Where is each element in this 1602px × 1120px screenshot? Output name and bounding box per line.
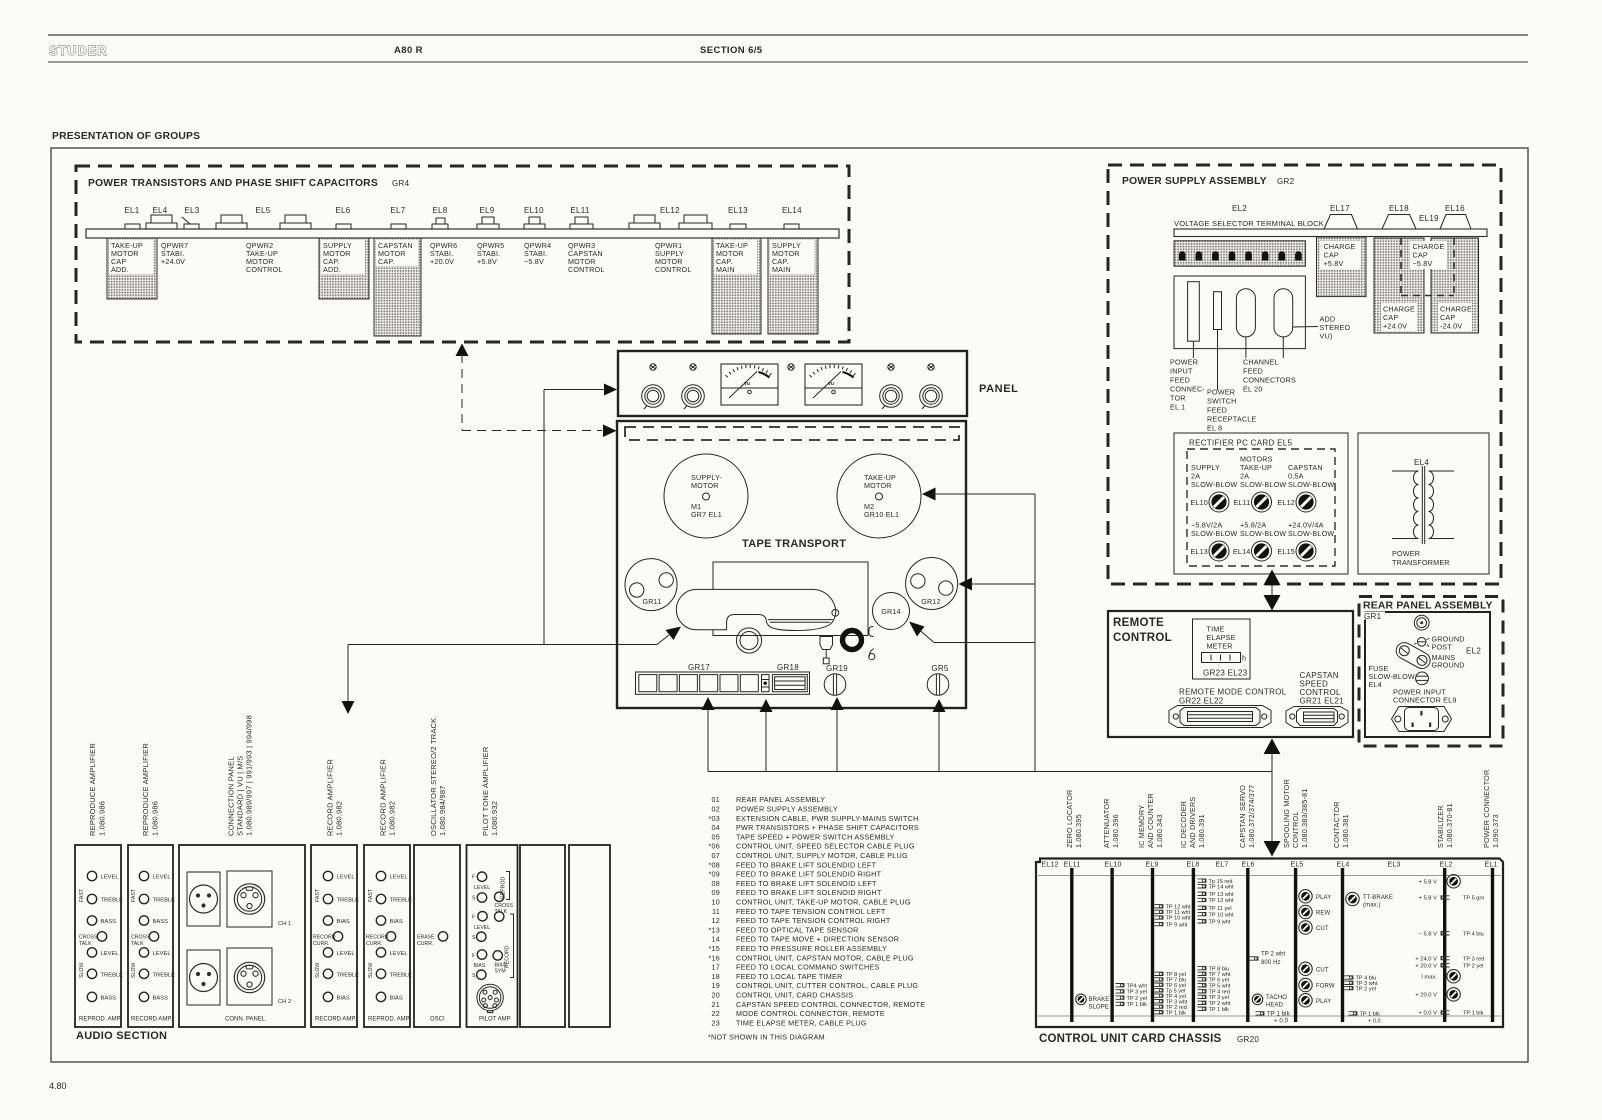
svg-text:TAPE TRANSPORT: TAPE TRANSPORT bbox=[742, 538, 846, 550]
svg-text:GR22 EL22: GR22 EL22 bbox=[1179, 697, 1224, 706]
rear panel dashed enclosure bbox=[1359, 597, 1503, 747]
svg-text:*03: *03 bbox=[708, 814, 720, 823]
svg-text:FORW: FORW bbox=[1316, 984, 1335, 990]
wire: horizontal to audio bbox=[348, 644, 657, 646]
capacitor EL7 bbox=[391, 224, 406, 229]
svg-text:01: 01 bbox=[712, 795, 721, 804]
svg-text:PWR TRANSISTORS + PHASE SHIFT: PWR TRANSISTORS + PHASE SHIFT CAPACITORS bbox=[736, 823, 919, 832]
EL2 stabilizer outputs bbox=[1415, 880, 1437, 1017]
svg-text:REAR PANEL ASSEMBLY: REAR PANEL ASSEMBLY bbox=[736, 795, 825, 804]
svg-text:*08: *08 bbox=[708, 860, 720, 869]
add stereo vu note bbox=[1293, 326, 1318, 329]
GR2 dashed enclosure bbox=[1108, 165, 1501, 584]
power switch feed receptacle EL8 bbox=[1214, 292, 1222, 330]
svg-text:CONTROL UNIT, SUPPLY MOTOR, CA: CONTROL UNIT, SUPPLY MOTOR, CABLE PLUG bbox=[736, 851, 908, 860]
tape path cover (pill) bbox=[676, 589, 835, 630]
leads bbox=[1192, 341, 1194, 358]
end of tape sensor bbox=[869, 649, 874, 657]
svg-text:EL14: EL14 bbox=[1233, 547, 1251, 556]
rotated card labels bbox=[1065, 770, 1500, 848]
label power transformer bbox=[1392, 549, 1450, 567]
voltage selector terminal block bbox=[1174, 241, 1305, 266]
pinch roller bbox=[736, 628, 761, 653]
label QPWR2 bbox=[246, 241, 283, 274]
svg-text:CONTROL: CONTROL bbox=[655, 265, 692, 274]
svg-text:BIAS: BIAS bbox=[390, 919, 403, 925]
svg-text:CROSS: CROSS bbox=[79, 934, 98, 940]
svg-text:TREBLE: TREBLE bbox=[337, 972, 360, 978]
svg-text:REPROD: REPROD bbox=[501, 877, 507, 899]
svg-text:+5.8V: +5.8V bbox=[1324, 259, 1344, 268]
svg-text:STANDARD | VU | M/S: STANDARD | VU | M/S bbox=[236, 756, 245, 836]
svg-text:TRANSFORMER: TRANSFORMER bbox=[1392, 558, 1450, 567]
svg-text:EL9: EL9 bbox=[1145, 862, 1158, 869]
svg-text:*09: *09 bbox=[708, 870, 720, 879]
svg-text:PLAY: PLAY bbox=[1316, 999, 1331, 1005]
svg-text:FEED TO LOCAL TAPE TIMER: FEED TO LOCAL TAPE TIMER bbox=[736, 972, 843, 981]
fuse EL13 bbox=[1209, 541, 1229, 561]
svg-text:BASS: BASS bbox=[101, 995, 117, 1001]
svg-text:EL 8: EL 8 bbox=[1207, 424, 1222, 433]
svg-text:CH 1: CH 1 bbox=[278, 921, 291, 927]
svg-text:ATTENUATOR: ATTENUATOR bbox=[1102, 798, 1111, 848]
svg-text:RECEPTACLE: RECEPTACLE bbox=[1207, 415, 1256, 424]
svg-text:IC DECODER: IC DECODER bbox=[1179, 801, 1188, 848]
svg-text:14: 14 bbox=[712, 935, 721, 944]
svg-text:A80 R: A80 R bbox=[394, 45, 423, 56]
EL9 test points upper bbox=[1155, 905, 1192, 929]
svg-text:SWITCH: SWITCH bbox=[1207, 397, 1237, 406]
svg-text:*16: *16 bbox=[708, 953, 720, 962]
svg-text:TP 3 yel: TP 3 yel bbox=[1127, 990, 1147, 996]
svg-text:F: F bbox=[472, 875, 475, 881]
svg-text:FEED: FEED bbox=[1170, 376, 1190, 385]
IEC power connector EL9 bbox=[1392, 707, 1452, 732]
stub to GR18 bbox=[765, 711, 767, 772]
card EL1 bbox=[1491, 868, 1494, 1022]
svg-text:F: F bbox=[472, 953, 475, 959]
svg-text:EL15: EL15 bbox=[1277, 547, 1295, 556]
svg-text:LEVEL: LEVEL bbox=[474, 925, 490, 931]
svg-text:ZERO LOCATOR: ZERO LOCATOR bbox=[1065, 790, 1074, 848]
VU meter left bbox=[721, 364, 778, 405]
svg-text:FEED TO BRAKE LIFT SOLENOID RI: FEED TO BRAKE LIFT SOLENOID RIGHT bbox=[736, 888, 882, 897]
svg-text:CROSS: CROSS bbox=[131, 934, 150, 940]
svg-text:FEED TO TAPE TENSION CONTROL R: FEED TO TAPE TENSION CONTROL RIGHT bbox=[736, 916, 891, 925]
svg-text:TREBLE: TREBLE bbox=[390, 898, 413, 904]
svg-text:CUT: CUT bbox=[1316, 968, 1329, 974]
connector GR21 EL21 bbox=[1286, 707, 1348, 728]
svg-text:CH 2: CH 2 bbox=[278, 999, 291, 1005]
feed connector plate bbox=[1174, 276, 1305, 349]
wire: vertical drop left bbox=[543, 390, 545, 645]
svg-text:SECTION 6/5: SECTION 6/5 bbox=[700, 45, 763, 56]
svg-text:TREBLE: TREBLE bbox=[101, 972, 124, 978]
svg-text:1.080.370-81: 1.080.370-81 bbox=[1445, 803, 1454, 848]
svg-text:GR10 EL1: GR10 EL1 bbox=[864, 510, 899, 519]
svg-text:TALK: TALK bbox=[79, 941, 92, 947]
svg-text:BIAS: BIAS bbox=[390, 995, 403, 1001]
brake slope TP bbox=[1076, 994, 1087, 1005]
transistor EL5 left bbox=[216, 223, 247, 229]
capacitor EL13 bbox=[730, 224, 746, 229]
svg-text:TP 4 blu: TP 4 blu bbox=[1463, 932, 1484, 938]
stub to GR19 bbox=[836, 709, 838, 772]
svg-text:BASS: BASS bbox=[153, 919, 169, 925]
tape slot lines bbox=[768, 619, 833, 621]
svg-text:GR12: GR12 bbox=[921, 597, 941, 606]
svg-text:BIAS: BIAS bbox=[337, 919, 350, 925]
svg-text:AUDIO SECTION: AUDIO SECTION bbox=[76, 1030, 167, 1042]
svg-text:TOR: TOR bbox=[1170, 394, 1186, 403]
svg-text:STABILIZER: STABILIZER bbox=[1436, 805, 1445, 848]
card EL5 bbox=[1294, 868, 1297, 1022]
svg-text:1.080.986: 1.080.986 bbox=[151, 801, 160, 836]
svg-text:FEED TO BRAKE LIFT SOLENDID LE: FEED TO BRAKE LIFT SOLENDID LEFT bbox=[736, 860, 877, 869]
svg-text:FAST: FAST bbox=[315, 888, 321, 902]
indicator cell bbox=[762, 675, 770, 692]
transistor EL12 right bbox=[679, 223, 712, 229]
svg-text:POST: POST bbox=[1432, 643, 1453, 652]
svg-text:*13: *13 bbox=[708, 925, 720, 934]
title bbox=[1361, 598, 1498, 610]
svg-text:SLOW-BLOW: SLOW-BLOW bbox=[1240, 480, 1286, 489]
wire: right bus vertical bbox=[1034, 494, 1036, 772]
EL9 test points lower bbox=[1155, 972, 1188, 1016]
rear panel plate bbox=[1365, 612, 1490, 737]
channel feed connector 1 bbox=[1236, 289, 1255, 337]
svg-text:05: 05 bbox=[712, 832, 721, 841]
svg-text:TP 13 wht: TP 13 wht bbox=[1209, 892, 1235, 898]
slot labels bbox=[1041, 862, 1497, 869]
svg-text:TP 2 yel: TP 2 yel bbox=[1463, 964, 1483, 970]
brake drum GR11 bbox=[625, 559, 677, 611]
svg-text:TP 2 yel: TP 2 yel bbox=[1356, 986, 1376, 992]
svg-text:LEVEL: LEVEL bbox=[101, 875, 120, 881]
svg-text:IC MEMORY: IC MEMORY bbox=[1137, 805, 1146, 848]
svg-text:CONNECTOR EL9: CONNECTOR EL9 bbox=[1393, 696, 1457, 705]
svg-text:21: 21 bbox=[712, 1000, 721, 1009]
svg-text:TACHO: TACHO bbox=[1266, 995, 1287, 1001]
svg-text:GR18: GR18 bbox=[777, 663, 799, 672]
svg-text:AND COUNTER: AND COUNTER bbox=[1146, 793, 1155, 848]
wire: GR12 feed bbox=[959, 578, 973, 591]
svg-text:GR2: GR2 bbox=[1277, 177, 1295, 186]
svg-text:FAST: FAST bbox=[131, 888, 137, 902]
svg-text:POWER SUPPLY ASSEMBLY: POWER SUPPLY ASSEMBLY bbox=[736, 805, 838, 814]
label QPWR7 bbox=[161, 241, 188, 266]
svg-text:CONTROL UNIT, CUTTER CONTROL,: CONTROL UNIT, CUTTER CONTROL, CABLE PLUG bbox=[736, 981, 918, 990]
svg-text:MOTOR: MOTOR bbox=[691, 481, 719, 490]
svg-text:1.080.396: 1.080.396 bbox=[1111, 814, 1120, 848]
spare card 2 bbox=[569, 845, 610, 1027]
svg-text:PANEL: PANEL bbox=[979, 383, 1018, 395]
svg-text:SLOPE: SLOPE bbox=[1089, 1005, 1110, 1011]
EL4 TT-brake TP bbox=[1346, 892, 1359, 905]
wire: bottom bus bbox=[708, 771, 1272, 773]
svg-text:S: S bbox=[472, 935, 476, 941]
svg-text:20: 20 bbox=[712, 991, 721, 1000]
svg-text:CONTROL UNIT, CARD CHASSIS: CONTROL UNIT, CARD CHASSIS bbox=[736, 991, 853, 1000]
svg-text:REPRODUCE AMPLIFIER: REPRODUCE AMPLIFIER bbox=[141, 743, 150, 836]
svg-text:+ 20.0 V: + 20.0 V bbox=[1415, 964, 1437, 970]
cap block: capstan motor cap bbox=[374, 238, 421, 336]
svg-text:REMOTE: REMOTE bbox=[1113, 617, 1164, 629]
svg-text:EL11: EL11 bbox=[1064, 862, 1081, 869]
svg-text:EL10: EL10 bbox=[1190, 498, 1208, 507]
svg-text:STUDER: STUDER bbox=[49, 44, 108, 58]
svg-text:TREBLE: TREBLE bbox=[337, 898, 360, 904]
svg-text:02: 02 bbox=[712, 805, 721, 814]
svg-text:TREBLE: TREBLE bbox=[153, 898, 176, 904]
svg-text:INPUT: INPUT bbox=[1170, 367, 1193, 376]
svg-text:POWER TRANSISTORS AND PHASE SH: POWER TRANSISTORS AND PHASE SHIFT CAPACI… bbox=[88, 178, 378, 189]
fuse labels row 1 bbox=[1191, 463, 1237, 489]
svg-text:SLOW-BLOW: SLOW-BLOW bbox=[1288, 529, 1334, 538]
-24.0V text patch bbox=[1438, 303, 1472, 331]
svg-text:TREBLE: TREBLE bbox=[153, 972, 176, 978]
card EL10 bbox=[1110, 868, 1113, 1022]
cap block: supply motor cap add bbox=[319, 238, 369, 299]
svg-text:04: 04 bbox=[712, 823, 721, 832]
svg-text:EL7: EL7 bbox=[390, 206, 405, 215]
svg-text:1.080.982: 1.080.982 bbox=[335, 801, 344, 836]
svg-text:RECTIFIER PC CARD EL5: RECTIFIER PC CARD EL5 bbox=[1189, 439, 1292, 448]
svg-text:TP 1 blk: TP 1 blk bbox=[1209, 1007, 1230, 1013]
svg-text:CAPSTAN SPEED CONTROL CONNECTO: CAPSTAN SPEED CONTROL CONNECTOR, REMOTE bbox=[736, 1000, 925, 1009]
svg-text:PRESENTATION OF GROUPS: PRESENTATION OF GROUPS bbox=[52, 131, 200, 142]
svg-text:FEED TO TAPE MOVE + DIRECTION: FEED TO TAPE MOVE + DIRECTION SENSOR bbox=[736, 935, 899, 944]
card: reproduce amplifier 2 bbox=[128, 845, 175, 1027]
svg-text:FAST: FAST bbox=[79, 888, 85, 902]
svg-text:EL9: EL9 bbox=[479, 206, 494, 215]
svg-text:LEVEL: LEVEL bbox=[337, 951, 356, 957]
svg-text:h: h bbox=[1242, 654, 1246, 663]
svg-text:REPROD. AMP: REPROD. AMP bbox=[368, 1017, 410, 1023]
svg-text:SLOW: SLOW bbox=[79, 963, 85, 978]
label QPWR5 bbox=[477, 241, 504, 266]
svg-text:POWER CONNECTOR: POWER CONNECTOR bbox=[1482, 770, 1491, 848]
brackets reprod/record bbox=[506, 872, 514, 978]
svg-text:RECORD AMP.: RECORD AMP. bbox=[315, 1017, 357, 1023]
transistor EL8 bbox=[432, 224, 448, 229]
time elapse meter box bbox=[1193, 619, 1251, 679]
transistor EL10 bbox=[524, 224, 545, 229]
svg-text:OSCI: OSCI bbox=[430, 1017, 445, 1023]
svg-text:PILOT AMP: PILOT AMP bbox=[479, 1017, 511, 1023]
fuse holder bbox=[1416, 672, 1429, 685]
svg-text:SLOW: SLOW bbox=[368, 963, 374, 978]
svg-text:RECORD AMPLIFIER: RECORD AMPLIFIER bbox=[326, 759, 335, 836]
svg-text:TP 1 blk: TP 1 blk bbox=[1127, 1002, 1148, 1008]
svg-text:TP 3 red: TP 3 red bbox=[1463, 956, 1484, 962]
svg-text:FEED: FEED bbox=[1207, 406, 1227, 415]
card: oscillator bbox=[414, 845, 460, 1027]
cap block: supply motor cap main bbox=[768, 238, 818, 334]
selector bar bbox=[1174, 229, 1487, 237]
svg-text:CONNECTION PANEL: CONNECTION PANEL bbox=[227, 756, 236, 836]
ground post screw bbox=[1417, 638, 1426, 647]
svg-text:FAST: FAST bbox=[368, 888, 374, 902]
svg-text:REPRODUCE AMPLIFIER: REPRODUCE AMPLIFIER bbox=[88, 743, 97, 836]
+24.0V text patch bbox=[1381, 303, 1417, 331]
svg-text:TP 10 wht: TP 10 wht bbox=[1166, 916, 1192, 922]
remote control box bbox=[1108, 611, 1353, 737]
fuse labels row 2 bbox=[1191, 521, 1237, 539]
power transformer box bbox=[1358, 433, 1489, 574]
EL6 test points bbox=[1250, 957, 1259, 960]
card: pilot tone amplifier bbox=[467, 845, 518, 1027]
svg-text:CONTACTOR: CONTACTOR bbox=[1332, 801, 1341, 848]
svg-text:CURR.: CURR. bbox=[313, 941, 329, 947]
tape speed + power switch assembly (dashed strip) bbox=[625, 427, 959, 440]
svg-text:11: 11 bbox=[712, 907, 720, 916]
svg-text:TREBLE: TREBLE bbox=[101, 898, 124, 904]
channel feed connector 2 bbox=[1274, 289, 1293, 337]
GR4 dashed enclosure bbox=[76, 166, 849, 342]
svg-text:+ 24.0 V: + 24.0 V bbox=[1415, 956, 1437, 962]
mounting bar bbox=[86, 229, 839, 238]
svg-text:CURR.: CURR. bbox=[417, 941, 433, 947]
knob GR19 bbox=[824, 674, 846, 696]
svg-text:EL13: EL13 bbox=[1190, 547, 1208, 556]
svg-text:ADD.: ADD. bbox=[111, 265, 129, 274]
svg-text:1.080.984/987: 1.080.984/987 bbox=[438, 785, 447, 836]
svg-text:CURR.: CURR. bbox=[366, 941, 382, 947]
svg-text:TP 12 wht: TP 12 wht bbox=[1209, 898, 1235, 904]
svg-text:RECORD AMP.: RECORD AMP. bbox=[131, 1017, 173, 1023]
svg-text:800 Hz: 800 Hz bbox=[1261, 960, 1281, 966]
svg-text:REMOTE MODE CONTROL: REMOTE MODE CONTROL bbox=[1179, 688, 1287, 697]
knob bbox=[642, 385, 665, 409]
hour counter EL23 bbox=[1202, 653, 1241, 663]
svg-text:GR21 EL21: GR21 EL21 bbox=[1300, 697, 1345, 706]
EL4 test points bbox=[1345, 976, 1381, 1025]
svg-text:EL2: EL2 bbox=[1466, 647, 1481, 656]
svg-text:GROUND: GROUND bbox=[1432, 661, 1465, 670]
take-up motor bbox=[837, 454, 921, 538]
svg-text:− 5.8 V: − 5.8 V bbox=[1418, 932, 1437, 938]
svg-text:1.080.989/997 | 991/993 | 994/: 1.080.989/997 | 991/993 | 994/998 bbox=[245, 715, 254, 836]
svg-text:10: 10 bbox=[712, 898, 721, 907]
svg-text:EL4: EL4 bbox=[152, 206, 167, 215]
screw bbox=[650, 364, 656, 370]
svg-text:-24.0V: -24.0V bbox=[1440, 322, 1462, 331]
svg-text:F: F bbox=[472, 915, 475, 921]
svg-text:TP 2 yel: TP 2 yel bbox=[1127, 996, 1147, 1002]
card EL4 bbox=[1341, 868, 1344, 1022]
ground slot with screws bbox=[1396, 643, 1430, 669]
svg-text:BASS: BASS bbox=[101, 919, 117, 925]
svg-text:1.080.982: 1.080.982 bbox=[388, 801, 397, 836]
svg-text:GR4: GR4 bbox=[392, 179, 410, 188]
svg-text:GR14: GR14 bbox=[881, 607, 901, 616]
svg-text:LEVEL: LEVEL bbox=[390, 951, 409, 957]
wire: drop to audio section bbox=[347, 645, 349, 703]
svg-text:CAPSTAN SERVO: CAPSTAN SERVO bbox=[1238, 785, 1247, 848]
EL8 test points upper bbox=[1198, 879, 1235, 926]
label power input feed connector bbox=[1170, 358, 1205, 412]
svg-text:EL12: EL12 bbox=[1277, 498, 1295, 507]
cap block: take-up motor cap add bbox=[107, 238, 157, 299]
card EL9 bbox=[1151, 868, 1154, 1022]
svg-text:+ 0.0 V: + 0.0 V bbox=[1418, 1011, 1437, 1017]
svg-text:CONTROL UNIT, CAPSTAN MOTOR, C: CONTROL UNIT, CAPSTAN MOTOR, CABLE PLUG bbox=[736, 953, 914, 962]
chassis frame bbox=[1036, 859, 1503, 1028]
svg-text:MAIN: MAIN bbox=[772, 265, 791, 274]
svg-text:LEVEL: LEVEL bbox=[153, 951, 172, 957]
card EL8 bbox=[1192, 868, 1195, 1022]
label fuse bbox=[1369, 664, 1415, 689]
svg-text:TP 2 wht: TP 2 wht bbox=[1261, 952, 1286, 958]
charge cap -5.8V (dashed overlay) bbox=[1410, 241, 1447, 269]
svg-text:I max.: I max. bbox=[1421, 975, 1437, 981]
svg-text:EL1: EL1 bbox=[1484, 862, 1497, 869]
svg-text:1.080.381: 1.080.381 bbox=[1341, 814, 1350, 848]
svg-text:1.090.373: 1.090.373 bbox=[1491, 814, 1500, 848]
svg-text:EL4: EL4 bbox=[1369, 680, 1382, 689]
svg-text:23: 23 bbox=[712, 1018, 721, 1027]
svg-text:TP 5 grn: TP 5 grn bbox=[1463, 896, 1484, 902]
svg-text:FEED: FEED bbox=[1243, 367, 1263, 376]
svg-text:SYM: SYM bbox=[495, 969, 506, 975]
tension sensor bracket bbox=[869, 626, 874, 636]
spare card 1 bbox=[520, 845, 565, 1027]
roller GR14 bbox=[873, 593, 910, 630]
svg-text:CROSS: CROSS bbox=[495, 903, 514, 909]
svg-text:PLAY: PLAY bbox=[1316, 895, 1331, 901]
card: reproduce amplifier 1 bbox=[75, 845, 123, 1027]
svg-text:TP 14 wht: TP 14 wht bbox=[1209, 885, 1235, 891]
svg-text:CONTROL: CONTROL bbox=[1291, 811, 1300, 848]
svg-text:1.080.986: 1.080.986 bbox=[98, 801, 107, 836]
supply motor bbox=[664, 454, 748, 538]
svg-text:MOTOR: MOTOR bbox=[864, 481, 892, 490]
power input feed connector EL1 bbox=[1188, 282, 1200, 342]
svg-text:EL5: EL5 bbox=[255, 206, 270, 215]
svg-text:+ 0.0: + 0.0 bbox=[1368, 1018, 1381, 1024]
wire: remote/chassis bus bbox=[1271, 752, 1273, 843]
svg-text:EL3: EL3 bbox=[184, 206, 199, 215]
svg-text:TIME ELAPSE METER, CABLE PLUG: TIME ELAPSE METER, CABLE PLUG bbox=[736, 1018, 867, 1027]
svg-text:PILOT TONE AMPLIFIER: PILOT TONE AMPLIFIER bbox=[481, 746, 490, 836]
svg-text:TT-BRAKE: TT-BRAKE bbox=[1363, 895, 1393, 901]
double arrow GR2 to remote bbox=[1271, 582, 1273, 598]
svg-text:EL10: EL10 bbox=[1104, 862, 1121, 869]
svg-text:+5.8V: +5.8V bbox=[477, 257, 497, 266]
svg-text:1.080.383/385-81: 1.080.383/385-81 bbox=[1300, 788, 1309, 848]
svg-text:*NOT SHOWN IN THIS DIAGRAM: *NOT SHOWN IN THIS DIAGRAM bbox=[708, 1033, 825, 1042]
svg-text:MODE CONTROL CONNECTOR, REMOTE: MODE CONTROL CONNECTOR, REMOTE bbox=[736, 1009, 885, 1018]
svg-text:VOLTAGE SELECTOR TERMINAL BLO: VOLTAGE SELECTOR TERMINAL BLOCK bbox=[1174, 219, 1324, 228]
svg-text:07: 07 bbox=[712, 851, 721, 860]
capacitor EL14 bbox=[784, 224, 799, 229]
svg-text:EL1: EL1 bbox=[124, 206, 139, 215]
svg-text:CONNECTORS: CONNECTORS bbox=[1243, 376, 1296, 385]
stub to GR5 bbox=[938, 711, 940, 772]
svg-text:EL6: EL6 bbox=[335, 206, 350, 215]
svg-text:AND DRIVERS: AND DRIVERS bbox=[1188, 797, 1197, 848]
panel front plate bbox=[618, 351, 967, 416]
svg-text:(max.): (max.) bbox=[1363, 903, 1381, 909]
svg-text:EL19: EL19 bbox=[1419, 214, 1439, 223]
card: record amplifier 2 bbox=[364, 845, 412, 1027]
svg-text:RECORD AMPLIFIER: RECORD AMPLIFIER bbox=[379, 759, 388, 836]
card: record amplifier 1 bbox=[311, 845, 359, 1027]
rotated card titles bbox=[88, 715, 499, 836]
svg-text:18: 18 bbox=[712, 972, 721, 981]
svg-text:1.080.343: 1.080.343 bbox=[1155, 814, 1164, 848]
